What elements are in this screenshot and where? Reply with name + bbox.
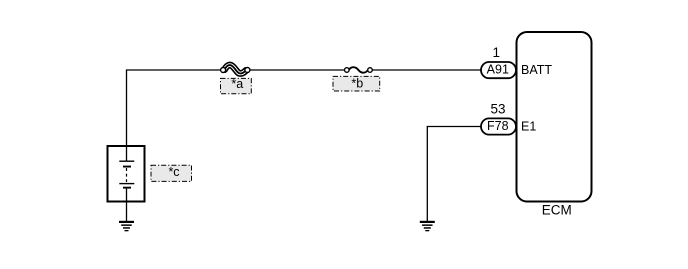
svg-text:*b: *b [351,77,363,91]
svg-text:E1: E1 [521,119,536,133]
svg-text:*a: *a [231,77,243,91]
svg-text:1: 1 [492,45,500,60]
svg-text:BATT: BATT [521,63,552,77]
svg-text:53: 53 [490,102,505,117]
svg-text:F78: F78 [487,119,509,133]
svg-text:ECM: ECM [542,203,572,218]
svg-text:*c: *c [168,165,179,179]
svg-text:A91: A91 [487,62,509,76]
